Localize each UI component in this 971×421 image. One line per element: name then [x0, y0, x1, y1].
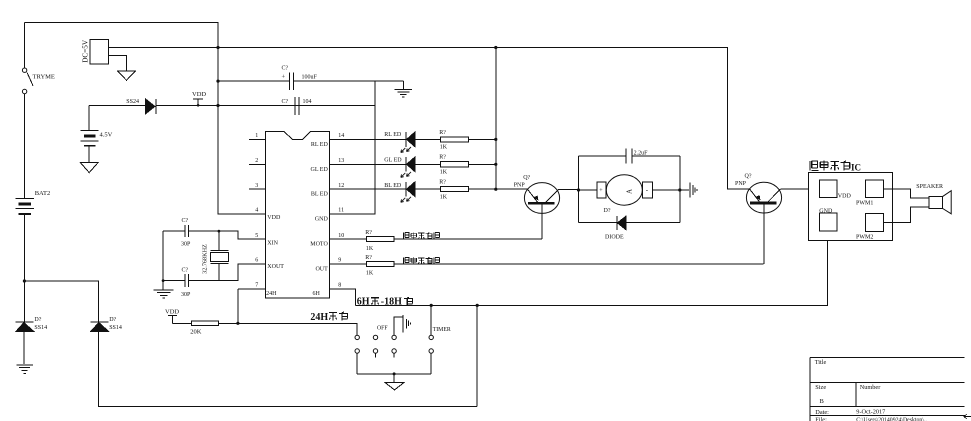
- svg-text:SS14: SS14: [34, 325, 47, 331]
- svg-text:R?: R?: [365, 230, 372, 236]
- svg-text:104: 104: [303, 99, 312, 105]
- svg-text:R?: R?: [365, 255, 372, 261]
- svg-text:1K: 1K: [366, 246, 374, 252]
- svg-text:VDD: VDD: [192, 91, 206, 98]
- svg-text:VDD: VDD: [267, 215, 281, 221]
- svg-text:14: 14: [338, 133, 344, 139]
- svg-text:File:: File:: [815, 417, 827, 421]
- svg-text:1K: 1K: [440, 194, 448, 200]
- svg-text:GND: GND: [315, 216, 329, 222]
- svg-text:XIN: XIN: [267, 240, 278, 246]
- svg-text:PNP: PNP: [514, 183, 526, 189]
- svg-text:SS24: SS24: [126, 99, 139, 105]
- svg-text:SPEAKER: SPEAKER: [916, 184, 943, 190]
- svg-text:2.2uF: 2.2uF: [634, 151, 649, 157]
- svg-text:DC=5V: DC=5V: [81, 39, 89, 63]
- svg-text:OUT: OUT: [315, 266, 328, 272]
- svg-text:Date:: Date:: [815, 409, 829, 416]
- svg-text:C?: C?: [282, 99, 289, 105]
- svg-text:+: +: [599, 188, 603, 194]
- svg-text:5: 5: [255, 233, 258, 239]
- svg-text:4: 4: [255, 208, 258, 214]
- svg-text:6H: 6H: [313, 291, 321, 297]
- svg-text:RL ED: RL ED: [311, 142, 329, 148]
- svg-text:D?: D?: [109, 317, 116, 323]
- svg-text:GND: GND: [819, 208, 833, 214]
- svg-text:XOUT: XOUT: [267, 264, 284, 270]
- svg-text:1: 1: [255, 133, 258, 139]
- svg-text:30P: 30P: [181, 242, 191, 248]
- svg-text:4.5V: 4.5V: [100, 132, 113, 139]
- svg-text:6H: 6H: [357, 297, 370, 308]
- svg-text:9: 9: [338, 258, 341, 264]
- svg-text:+: +: [282, 74, 286, 81]
- svg-text:100uF: 100uF: [302, 74, 318, 80]
- svg-text:24H: 24H: [310, 312, 328, 323]
- svg-text:Title: Title: [815, 359, 827, 366]
- svg-text:TIMER: TIMER: [433, 327, 451, 333]
- svg-text:8: 8: [338, 283, 341, 289]
- svg-text:R?: R?: [439, 130, 446, 136]
- svg-text:-18H: -18H: [381, 297, 402, 308]
- svg-text:MOTO: MOTO: [310, 242, 328, 248]
- svg-text:2: 2: [255, 158, 258, 164]
- svg-text:6: 6: [255, 258, 258, 264]
- svg-text:VDD: VDD: [165, 308, 179, 315]
- svg-text:9-Oct-2017: 9-Oct-2017: [856, 409, 885, 416]
- svg-text:11: 11: [338, 208, 344, 214]
- svg-text:R?: R?: [439, 180, 446, 186]
- svg-text:C?: C?: [282, 66, 289, 72]
- svg-text:IC: IC: [851, 163, 861, 173]
- svg-text:32.768KHZ: 32.768KHZ: [202, 244, 209, 274]
- svg-text:PNP: PNP: [735, 181, 747, 187]
- svg-text:1K: 1K: [440, 145, 448, 151]
- svg-text:GL ED: GL ED: [311, 167, 329, 173]
- svg-text:Number: Number: [860, 384, 882, 391]
- svg-text:Q?: Q?: [523, 175, 530, 181]
- svg-text:C?: C?: [182, 218, 189, 224]
- svg-text:A: A: [626, 189, 634, 194]
- svg-text:RL ED: RL ED: [384, 132, 402, 138]
- svg-text:24H: 24H: [266, 291, 277, 297]
- svg-text:D?: D?: [34, 317, 41, 323]
- svg-text:BAT2: BAT2: [35, 190, 51, 197]
- svg-text:PWM2: PWM2: [856, 234, 873, 240]
- svg-text:DIODE: DIODE: [605, 235, 624, 241]
- svg-text:SS14: SS14: [109, 325, 122, 331]
- svg-text:13: 13: [338, 158, 344, 164]
- svg-text:BL ED: BL ED: [384, 183, 402, 189]
- svg-text:C:\Users\20140924\Desktop\..: C:\Users\20140924\Desktop\..: [856, 417, 927, 421]
- svg-text:10: 10: [338, 233, 344, 239]
- svg-text:OFF: OFF: [377, 325, 388, 331]
- svg-text:3: 3: [255, 183, 258, 189]
- svg-text:GL ED: GL ED: [384, 158, 402, 164]
- svg-text:1K: 1K: [366, 271, 374, 277]
- svg-text:Size: Size: [815, 384, 826, 391]
- svg-text:PWM1: PWM1: [856, 201, 873, 207]
- svg-text:R?: R?: [439, 155, 446, 161]
- svg-text:1K: 1K: [440, 170, 448, 176]
- svg-text:20K: 20K: [190, 328, 202, 335]
- svg-text:7: 7: [255, 283, 258, 289]
- svg-text:TRYME: TRYME: [33, 73, 55, 80]
- svg-text:Q?: Q?: [745, 174, 752, 180]
- svg-text:12: 12: [338, 183, 344, 189]
- svg-text:C?: C?: [182, 268, 189, 274]
- svg-text:VDD: VDD: [838, 194, 852, 200]
- svg-text:30P: 30P: [181, 292, 191, 298]
- svg-text:BL ED: BL ED: [311, 192, 329, 198]
- svg-text:D?: D?: [604, 208, 611, 214]
- svg-text:B: B: [820, 398, 825, 405]
